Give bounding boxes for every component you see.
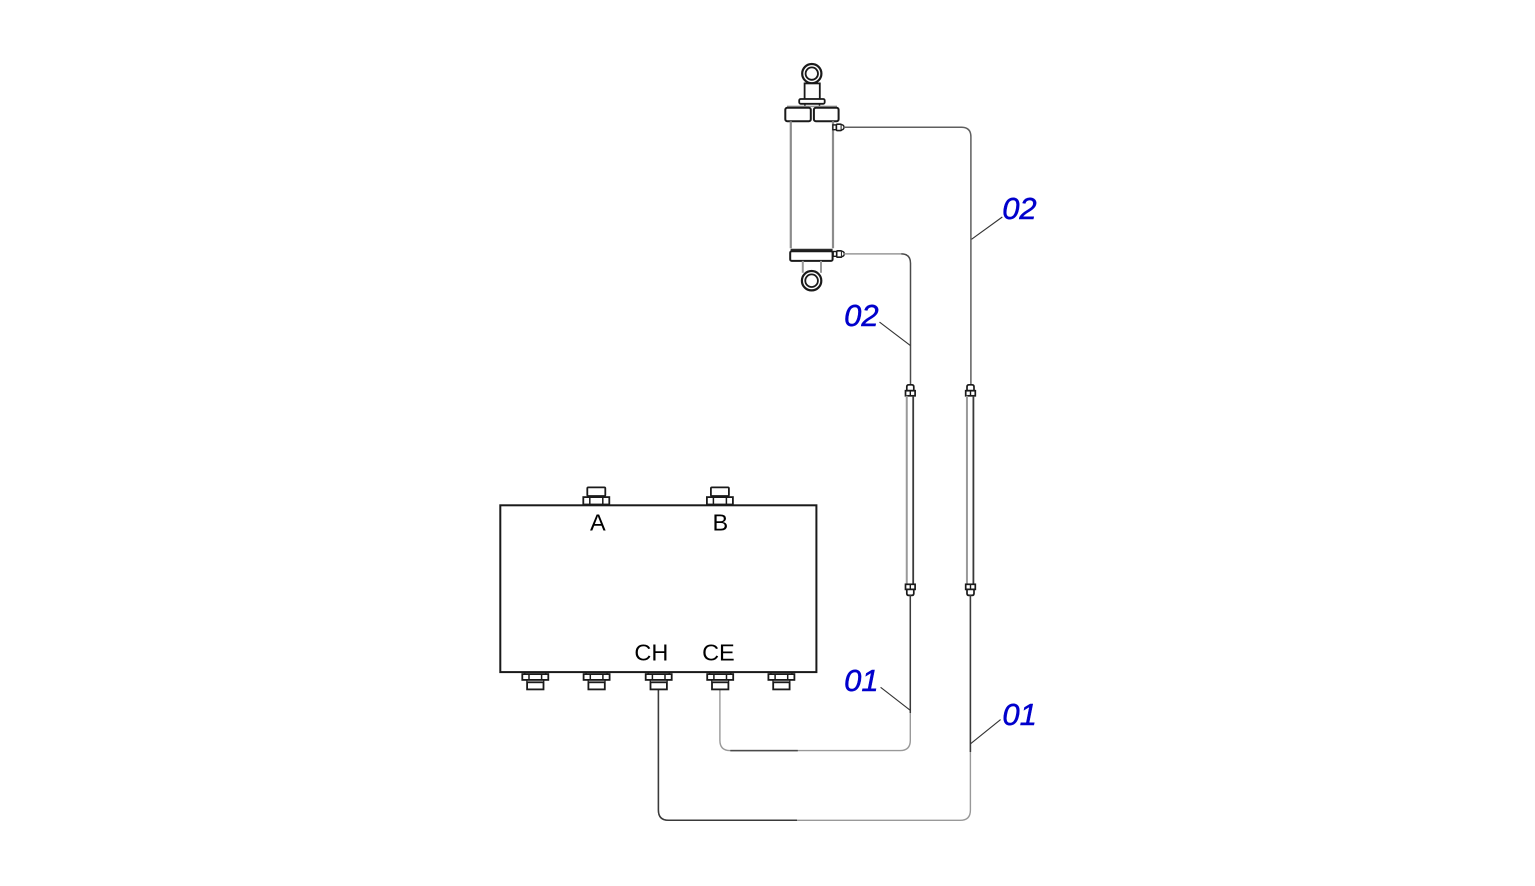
svg-text:B: B	[713, 510, 729, 536]
bottom fitting 1	[522, 672, 548, 689]
hydraulic cylinder top eye	[802, 64, 821, 83]
right tube bottom fitting	[966, 584, 976, 595]
clevis	[803, 261, 821, 273]
collar stem ticks	[805, 104, 820, 108]
bottom fitting 5	[768, 672, 794, 689]
left tube bottom fitting	[906, 584, 916, 595]
hose 01 left run (left riser down to port CE)	[720, 595, 910, 750]
svg-text:CE: CE	[702, 639, 735, 665]
cylinder barrel	[791, 121, 833, 248]
cylinder rod	[805, 83, 820, 99]
port A fitting	[583, 487, 609, 505]
cylinder top port fitting	[833, 124, 844, 130]
cylinder bottom eye	[802, 271, 821, 290]
cylinder bottom cap	[790, 251, 832, 261]
head cap top face edge	[787, 105, 837, 107]
leader line for label 02 left	[880, 322, 911, 346]
leader line for label 01 left	[881, 687, 911, 710]
svg-text:CH: CH	[634, 639, 668, 665]
bottom fitting CH	[646, 672, 672, 689]
valve block body	[500, 505, 816, 672]
rod collar	[799, 99, 825, 104]
barrel bottom weld band	[791, 249, 833, 251]
left tube top fitting	[906, 385, 916, 396]
bottom fitting 2	[584, 672, 610, 689]
svg-text:02: 02	[844, 298, 878, 333]
port B fitting	[707, 487, 733, 505]
leader line for label 01 right	[971, 720, 1001, 744]
hose 01 right run (right riser down to port CH)	[658, 595, 970, 820]
right tube body	[967, 396, 973, 585]
svg-text:02: 02	[1002, 191, 1036, 226]
svg-text:01: 01	[1002, 697, 1036, 732]
cylinder head cap right half	[814, 108, 839, 122]
cylinder bottom port fitting	[833, 251, 844, 257]
right tube top fitting	[966, 385, 976, 396]
svg-text:01: 01	[844, 663, 878, 698]
bottom fitting CE	[707, 672, 733, 689]
leader line for label 02 right	[972, 217, 1003, 239]
hose 02 lower run (bottom port to left riser)	[844, 253, 901, 255]
cylinder head cap left half	[785, 108, 811, 122]
svg-text:A: A	[590, 510, 606, 536]
hose 02 upper run (top port to right riser)	[844, 127, 971, 384]
left tube body	[907, 396, 913, 585]
